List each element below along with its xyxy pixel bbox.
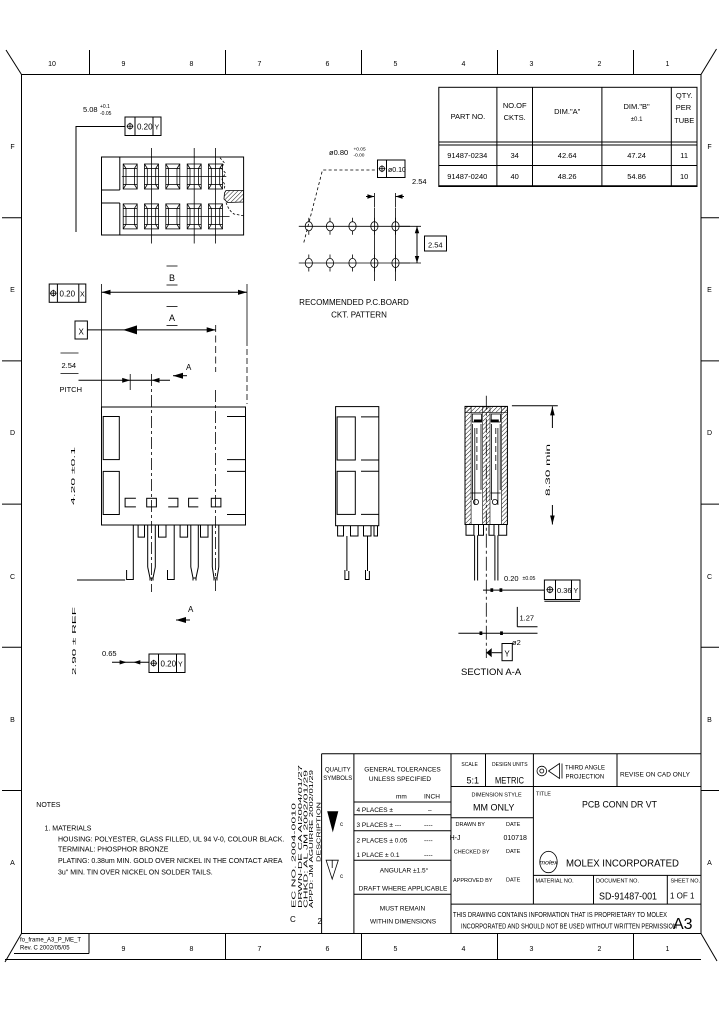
TABLE — [439, 87, 697, 186]
svg-text:5: 5 — [394, 946, 398, 953]
quality symbol filled triangle — [327, 811, 338, 832]
svg-text:C: C — [10, 574, 15, 581]
svg-text:4: 4 — [462, 946, 466, 953]
svg-text:A: A — [188, 605, 194, 614]
extension line left (body edge) — [101, 284, 103, 407]
side view body — [336, 407, 379, 526]
svg-text:ANGULAR ±1.5°: ANGULAR ±1.5° — [380, 867, 429, 875]
svg-text:±0.1: ±0.1 — [631, 117, 643, 123]
svg-text:X: X — [80, 292, 85, 299]
top view body — [102, 157, 244, 235]
svg-text:7: 7 — [258, 61, 262, 68]
left zone letters — [10, 144, 15, 867]
svg-text:10: 10 — [680, 172, 688, 181]
svg-text:±0.05: ±0.05 — [523, 576, 536, 582]
svg-text:SYMBOLS: SYMBOLS — [323, 776, 352, 782]
parts table header separator double line — [439, 141, 697, 143]
dim line A with large arrow — [87, 329, 215, 331]
svg-text:2.90 ± REF: 2.90 ± REF — [72, 605, 78, 675]
svg-text:9: 9 — [122, 61, 126, 68]
svg-text:ø2: ø2 — [512, 638, 521, 647]
svg-text:SECTION A-A: SECTION A-A — [461, 667, 522, 678]
svg-text:c: c — [340, 874, 343, 880]
svg-text:QTY.: QTY. — [676, 91, 693, 100]
pin 5 (front row) — [211, 525, 213, 567]
svg-text:Y: Y — [155, 125, 160, 132]
vertical pitch dim 2.54 boxed — [400, 225, 421, 227]
centerline pin2 — [151, 374, 153, 592]
svg-text:2.54: 2.54 — [428, 241, 443, 250]
svg-text:DRAWN BY: DRAWN BY — [456, 822, 486, 828]
svg-text:APPROVED BY: APPROVED BY — [453, 878, 493, 884]
parts table bottom thick line — [439, 185, 697, 187]
svg-text:3u" MIN. TIN OVER NICKEL ON S: 3u" MIN. TIN OVER NICKEL ON SOLDER TAILS… — [58, 870, 213, 877]
hatched top band — [465, 406, 507, 412]
svg-text:3 PLACES ± ---: 3 PLACES ± --- — [357, 822, 402, 829]
svg-text:0.20: 0.20 — [504, 574, 519, 583]
svg-text:3: 3 — [530, 61, 534, 68]
section body outline — [465, 406, 507, 524]
svg-text:DIM."A": DIM."A" — [554, 107, 580, 116]
svg-text:C: C — [707, 574, 712, 581]
dim line lower — [458, 632, 537, 634]
svg-text:APPD: JM AGUIRRE 2002/01/29: APPD: JM AGUIRRE 2002/01/29 — [309, 770, 315, 908]
side view inner rect upper — [337, 417, 355, 460]
hole row 1 — [305, 218, 312, 235]
svg-text:REVISE ON CAD ONLY: REVISE ON CAD ONLY — [620, 772, 691, 779]
svg-text:PCB CONN DR VT: PCB CONN DR VT — [582, 800, 657, 811]
svg-text:91487-0240: 91487-0240 — [447, 172, 487, 181]
left zone ticks — [2, 218, 22, 791]
side view right edge lines — [361, 417, 379, 515]
svg-text:QUALITY: QUALITY — [325, 768, 351, 774]
side view pin 1 — [346, 536, 348, 571]
svg-text:TUBE: TUBE — [674, 116, 694, 125]
svg-text:4: 4 — [462, 61, 466, 68]
TITLEBLOCK — [290, 754, 701, 934]
svg-text:MM ONLY: MM ONLY — [473, 803, 514, 813]
parts table row 2 — [447, 172, 688, 181]
svg-text:Rev. C 2002/05/05: Rev. C 2002/05/05 — [20, 946, 70, 952]
svg-text:-0.00: -0.00 — [354, 153, 365, 159]
bottom zone ticks — [226, 934, 634, 960]
svg-text:PLATING: 0.38um MIN. GOLD OVER: PLATING: 0.38um MIN. GOLD OVER NICKEL IN… — [58, 858, 283, 865]
svg-text:0.20: 0.20 — [137, 123, 153, 132]
parts table column lines — [497, 87, 671, 186]
tail offset dim 0.20 — [483, 589, 544, 591]
svg-text:HOUSING: POLYESTER, GLASS FILL: HOUSING: POLYESTER, GLASS FILLED, UL 94 … — [58, 837, 284, 844]
svg-text:MOLEX INCORPORATED: MOLEX INCORPORATED — [566, 859, 679, 870]
svg-text:42.64: 42.64 — [558, 151, 577, 160]
svg-text:Y: Y — [504, 650, 510, 659]
svg-text:DIMENSION STYLE: DIMENSION STYLE — [472, 793, 522, 799]
svg-text:2.54: 2.54 — [62, 361, 77, 370]
svg-text:–: – — [428, 807, 432, 814]
svg-text:----: ---- — [424, 822, 433, 829]
dim line B — [102, 291, 248, 293]
svg-text:1: 1 — [666, 61, 670, 68]
svg-text:MUST REMAIN: MUST REMAIN — [380, 906, 426, 913]
svg-text:-0.05: -0.05 — [100, 111, 112, 117]
svg-text:PROJECTION: PROJECTION — [566, 775, 605, 781]
svg-text:7: 7 — [258, 946, 262, 953]
corner diagonal bottom-left — [5, 934, 22, 963]
parts table header text — [451, 91, 695, 125]
side view pin 2 — [367, 536, 369, 571]
svg-text:NO.OF: NO.OF — [503, 101, 527, 110]
svg-text:ø0.80: ø0.80 — [329, 148, 348, 157]
top view contacts row 1 — [123, 164, 137, 189]
svg-text:8.30 min: 8.30 min — [546, 444, 552, 496]
svg-text:DESCRIPTION: DESCRIPTION — [317, 801, 323, 862]
parts table row separator — [439, 165, 697, 167]
svg-text:2 PLACES ± 0.05: 2 PLACES ± 0.05 — [357, 838, 408, 845]
svg-text:E: E — [10, 287, 15, 294]
svg-text:+0.1: +0.1 — [100, 104, 110, 110]
svg-text:34: 34 — [511, 151, 519, 160]
svg-text:c: c — [340, 822, 343, 828]
front view left inner rect lower — [103, 471, 119, 514]
datum Y flag — [486, 648, 491, 657]
top zone ticks — [90, 50, 634, 75]
svg-text:91487-0234: 91487-0234 — [447, 151, 487, 160]
svg-text:X: X — [79, 328, 85, 337]
svg-text:010718: 010718 — [504, 835, 527, 842]
front view left inner rect upper — [103, 417, 119, 460]
pin 1 (back row) — [132, 525, 134, 571]
svg-text:UNLESS SPECIFIED: UNLESS SPECIFIED — [369, 776, 431, 783]
svg-text:48.26: 48.26 — [558, 172, 577, 181]
svg-text:A: A — [186, 363, 192, 372]
svg-text:8: 8 — [190, 61, 194, 68]
svg-text:CKT. PATTERN: CKT. PATTERN — [331, 311, 387, 320]
svg-text:B: B — [169, 273, 175, 283]
top view break zigzag top right — [220, 158, 226, 190]
tolerance rows — [357, 807, 433, 859]
svg-text:D: D — [707, 430, 712, 437]
NOTES — [36, 802, 284, 877]
top zone numbers — [48, 61, 669, 68]
svg-text:F: F — [10, 144, 14, 151]
svg-text:INCH: INCH — [424, 794, 440, 801]
svg-text:0.20: 0.20 — [60, 290, 76, 299]
top view contacts row 2 — [123, 204, 137, 229]
svg-text:METRIC: METRIC — [495, 776, 524, 786]
section feet — [466, 525, 507, 536]
corner diagonal top-right — [701, 49, 717, 75]
svg-text:TITLE: TITLE — [536, 792, 551, 798]
svg-text:5.08: 5.08 — [83, 105, 98, 114]
svg-text:6: 6 — [326, 61, 330, 68]
svg-text:EC NO. 2004-0010: EC NO. 2004-0010 — [292, 803, 298, 908]
corner diagonal top-left — [6, 50, 22, 75]
svg-text:C: C — [290, 915, 296, 924]
svg-text:A: A — [169, 313, 175, 323]
svg-text:INCORPORATED AND SHOULD NOT BE: INCORPORATED AND SHOULD NOT BE USED WITH… — [461, 924, 677, 931]
parts table outline — [439, 87, 697, 186]
svg-text:3: 3 — [530, 946, 534, 953]
svg-text:1 PLACE ± 0.1: 1 PLACE ± 0.1 — [357, 852, 400, 859]
svg-text:THIRD ANGLE: THIRD ANGLE — [565, 766, 605, 772]
feature control frame 0.20 Y — [125, 117, 161, 136]
svg-text:Y: Y — [178, 662, 183, 669]
pitch dim text 2.54 / PITCH — [61, 352, 79, 354]
svg-text:PITCH: PITCH — [60, 385, 83, 394]
svg-text:4 PLACES ±: 4 PLACES ± — [357, 807, 394, 814]
row centerlines — [299, 225, 410, 227]
datum X box — [75, 321, 87, 339]
height dim 8.30 min — [512, 405, 558, 407]
frame info box bottom-left — [88, 934, 90, 954]
svg-text:2: 2 — [598, 946, 602, 953]
front view body — [102, 407, 246, 525]
svg-text:mm: mm — [396, 794, 407, 801]
right zone ticks — [701, 218, 719, 791]
svg-text:ø0.10: ø0.10 — [388, 167, 406, 174]
svg-text:RECOMMENDED P.C.BOARD: RECOMMENDED P.C.BOARD — [299, 298, 409, 307]
cavity 2 details — [491, 414, 500, 422]
svg-text:8: 8 — [190, 946, 194, 953]
pin 2 (front row) — [147, 525, 149, 567]
svg-text:1.27: 1.27 — [520, 614, 535, 623]
feature control frame 0.20 Y (tails) — [149, 654, 185, 673]
bottom zone numbers — [122, 946, 670, 953]
svg-text:11: 11 — [680, 151, 688, 160]
pin 4 (front row) — [190, 525, 192, 567]
side view standoff feet — [338, 526, 378, 536]
svg-text:0.20: 0.20 — [161, 660, 177, 669]
svg-text:CHECKED BY: CHECKED BY — [454, 850, 490, 856]
svg-text:Y: Y — [574, 588, 579, 595]
hatched left wall — [465, 406, 471, 524]
hole position frame — [378, 160, 406, 178]
svg-text:DRAFT WHERE APPLICABLE: DRAFT WHERE APPLICABLE — [359, 886, 448, 893]
side view inner rect lower — [337, 471, 355, 514]
svg-text:+0.05: +0.05 — [354, 147, 366, 153]
leader to hole (dashed) — [304, 170, 378, 243]
svg-text:CKTS.: CKTS. — [504, 113, 526, 122]
standoff channels below body — [138, 525, 208, 537]
hatched center wall — [483, 406, 490, 524]
section tails — [474, 535, 476, 580]
svg-text:PART NO.: PART NO. — [451, 112, 486, 121]
feature control frame 0.20 X — [49, 284, 86, 302]
svg-text:B: B — [10, 717, 15, 724]
horizontal pitch dim 2.54 — [373, 193, 375, 207]
svg-text:DATE: DATE — [506, 878, 521, 884]
svg-text:SCALE: SCALE — [461, 762, 478, 768]
FRONTVIEW — [71, 374, 246, 675]
svg-text:DATE: DATE — [506, 822, 521, 828]
svg-text:54.86: 54.86 — [627, 172, 646, 181]
hole row 2 — [305, 255, 312, 272]
pitch dim line — [79, 379, 171, 381]
svg-text:5:1: 5:1 — [467, 776, 480, 786]
svg-text:10: 10 — [48, 61, 56, 68]
svg-text:----: ---- — [424, 852, 433, 859]
svg-text:THIS DRAWING CONTAINS INFORMAT: THIS DRAWING CONTAINS INFORMATION THAT I… — [453, 912, 667, 919]
svg-text:GENERAL TOLERANCES: GENERAL TOLERANCES — [364, 767, 441, 774]
svg-text:DIM."B": DIM."B" — [624, 102, 650, 111]
top view vertical centerlines — [151, 148, 153, 244]
svg-text:DESIGN UNITS: DESIGN UNITS — [492, 762, 528, 768]
svg-text:F: F — [707, 144, 711, 151]
svg-text:1. MATERIALS: 1. MATERIALS — [45, 826, 92, 833]
dim 0.65 leader — [112, 661, 149, 663]
svg-text:1 OF 1: 1 OF 1 — [670, 892, 695, 901]
svg-text:D: D — [10, 430, 15, 437]
svg-text:0.36: 0.36 — [557, 586, 572, 595]
svg-text:fo_frame_A3_P_ME_T: fo_frame_A3_P_ME_T — [20, 938, 81, 944]
svg-text:2: 2 — [598, 61, 602, 68]
svg-text:0.65: 0.65 — [102, 649, 117, 658]
SECTIONAA — [458, 396, 580, 678]
svg-text:2: 2 — [318, 917, 323, 926]
leader from frame — [76, 127, 125, 233]
pin 3 (back row) — [173, 525, 175, 571]
top view horizontal centerlines — [122, 176, 226, 178]
top view curve below hatch — [226, 203, 244, 216]
svg-text:40: 40 — [511, 172, 519, 181]
svg-text:----: ---- — [424, 838, 433, 845]
molex logo — [540, 851, 557, 872]
svg-text:TERMINAL: PHOSPHOR BRONZE: TERMINAL: PHOSPHOR BRONZE — [58, 847, 169, 854]
svg-text:1: 1 — [666, 946, 670, 953]
title block horizontals — [322, 754, 701, 904]
DIMS — [49, 266, 247, 407]
svg-text:A: A — [707, 860, 712, 867]
bottom zone band line — [5, 959, 701, 961]
svg-text:DATE: DATE — [506, 849, 521, 855]
svg-text:5: 5 — [394, 61, 398, 68]
third angle projection symbol — [537, 766, 547, 776]
svg-text:47.24: 47.24 — [627, 151, 646, 160]
svg-text:SHEET NO.: SHEET NO. — [671, 879, 701, 885]
column centerlines — [373, 208, 375, 282]
corner diagonal bottom-right — [701, 934, 717, 962]
extension line A right (dashed) — [215, 325, 217, 372]
top view hatched wedge — [224, 191, 244, 203]
svg-text:WITHIN DIMENSIONS: WITHIN DIMENSIONS — [370, 919, 437, 926]
svg-text:MATERIAL NO.: MATERIAL NO. — [536, 879, 575, 885]
front view right edge lines — [227, 417, 246, 515]
svg-text:SD-91487-001: SD-91487-001 — [599, 892, 657, 903]
svg-text:NOTES: NOTES — [36, 802, 60, 809]
quality symbol open triangle — [326, 860, 338, 879]
svg-text:PER: PER — [676, 103, 692, 112]
section centerline — [485, 396, 487, 658]
parts table row 1 — [447, 151, 688, 160]
svg-text:DOCUMENT NO.: DOCUMENT NO. — [596, 879, 639, 885]
svg-text:9: 9 — [122, 946, 126, 953]
svg-text:H-J: H-J — [450, 835, 461, 842]
top view left notches — [119, 157, 121, 190]
dim 1.27 bracket — [516, 607, 518, 627]
right zone letters — [707, 144, 712, 867]
svg-text:A3: A3 — [673, 916, 693, 933]
svg-text:E: E — [707, 287, 712, 294]
hatched right wall — [502, 406, 508, 524]
svg-text:4.20 ±0.1: 4.20 ±0.1 — [71, 447, 77, 505]
board datum line — [77, 579, 125, 581]
svg-text:B: B — [707, 717, 712, 724]
svg-text:A: A — [10, 860, 15, 867]
svg-text:molex: molex — [539, 860, 558, 867]
centerline pin5 — [215, 390, 217, 592]
svg-text:6: 6 — [326, 946, 330, 953]
front view center feature row — [125, 498, 136, 507]
svg-text:2.54: 2.54 — [412, 177, 427, 186]
title block outline verticals — [322, 754, 668, 934]
feature control frame 0.36 Y — [544, 580, 580, 600]
cavity 1 details — [472, 414, 481, 422]
extension line right — [246, 284, 248, 340]
SIDEVIEW — [336, 407, 379, 580]
